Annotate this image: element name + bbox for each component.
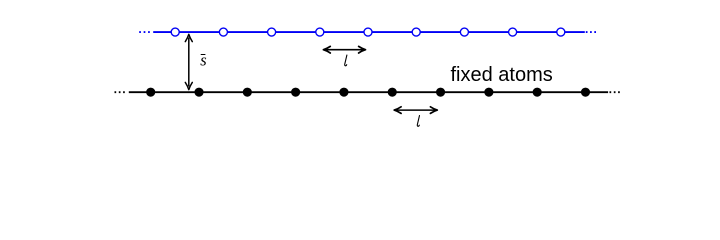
svg-text:s: s (200, 50, 206, 69)
node: movable atom 9 (open circle) (557, 28, 565, 36)
svg-text:fixed atoms: fixed atoms (451, 64, 553, 86)
node: movable atom 1 (open circle) (171, 28, 179, 36)
dimension arrow: bottom horizontal double arrow (lattice constant of fixed chain) (394, 107, 437, 114)
wire: top chain main blue line (153, 31, 585, 33)
node: movable atom 4 (open circle) (316, 28, 324, 36)
node: fixed atom 6 (filled dot) (388, 88, 397, 97)
node: movable atom 5 (open circle) (364, 28, 372, 36)
label: l (upper spacing) (345, 55, 347, 66)
wire: top chain left dotted continuation (139, 31, 151, 33)
node: fixed atom 3 (filled dot) (243, 88, 252, 97)
dimension arrow: top horizontal double arrow (lattice constant of upper chain) (323, 46, 365, 53)
node: fixed atom 5 (filled dot) (339, 88, 348, 97)
node: fixed atom 1 (filled dot) (146, 88, 155, 97)
node: movable atom 8 (open circle) (509, 28, 517, 36)
node: fixed atom 9 (filled dot) (533, 88, 542, 97)
node: movable atom 3 (open circle) (268, 28, 276, 36)
node: fixed atom 2 (filled dot) (194, 88, 203, 97)
node: fixed atom 4 (filled dot) (291, 88, 300, 97)
wire: bottom chain left dotted continuation (115, 91, 126, 93)
node: fixed atom 7 (filled dot) (436, 88, 445, 97)
node: fixed atom 10 (filled dot) (581, 88, 590, 97)
dimension arrow: vertical double arrow for sbar between chains (185, 34, 192, 89)
node: movable atom 6 (open circle) (412, 28, 420, 36)
label: l (lower spacing) (417, 116, 419, 127)
wire: bottom chain right dotted continuation (610, 91, 621, 93)
node: movable atom 2 (open circle) (219, 28, 227, 36)
wire: bottom chain main black line (129, 91, 608, 93)
label: sbar (mean spacing) (200, 50, 206, 69)
node: movable atom 7 (open circle) (460, 28, 468, 36)
wire: top chain right dotted continuation (586, 31, 596, 33)
node: fixed atom 8 (filled dot) (484, 88, 493, 97)
